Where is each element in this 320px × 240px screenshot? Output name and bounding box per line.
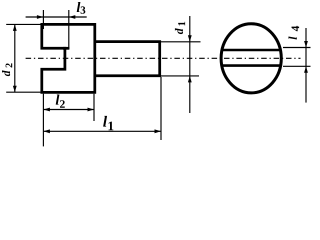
l3 arrow right [69,15,76,19]
l4 arrow top (points down) [304,41,308,48]
d2 extension line bottom [6,91,40,93]
d1 extension line top [161,41,201,43]
l4 extension line top [283,47,311,49]
l3 extension line left [42,10,44,29]
label l4 [288,36,296,39]
l3 arrow left [37,15,44,19]
screw head side view outline [42,24,95,92]
l2 arrow left [43,108,50,112]
l3 dimension line [26,16,87,18]
l4 arrow bottom (points up) [304,66,308,73]
d2 extension line top [6,23,40,25]
l2 extension line right [93,94,95,121]
label d2 [2,70,10,76]
centerline axis [26,57,301,59]
d1 arrow top (points down) [188,35,192,42]
d2 arrow bottom [13,86,17,93]
l1 arrow left [43,129,50,133]
l2 arrow right [88,108,95,112]
d2 dimension line [14,24,16,92]
l3 extension line right [68,10,70,49]
l1 dimension line [43,130,161,132]
screw shank outline [95,42,160,76]
label d1 [175,28,183,34]
l1 extension line right [160,77,162,140]
l2 dimension line [43,109,94,111]
d2 arrow top [13,24,17,31]
head front view circle [221,24,281,93]
l2 extension line left (shared with l1) [42,94,44,147]
label l1 [103,116,107,127]
l4 dimension line [305,28,307,103]
label l3 [77,2,81,12]
d1 dimension line [189,16,191,113]
l1 arrow right [155,129,162,133]
d1 extension line bottom [161,75,200,77]
slot top line front view [222,49,280,52]
d1 arrow bottom (points up) [188,76,192,83]
label l2 [56,95,60,105]
l4 extension line bottom [283,65,311,67]
notch top edge overshoot [63,47,69,50]
slot bottom line front view [222,64,281,67]
